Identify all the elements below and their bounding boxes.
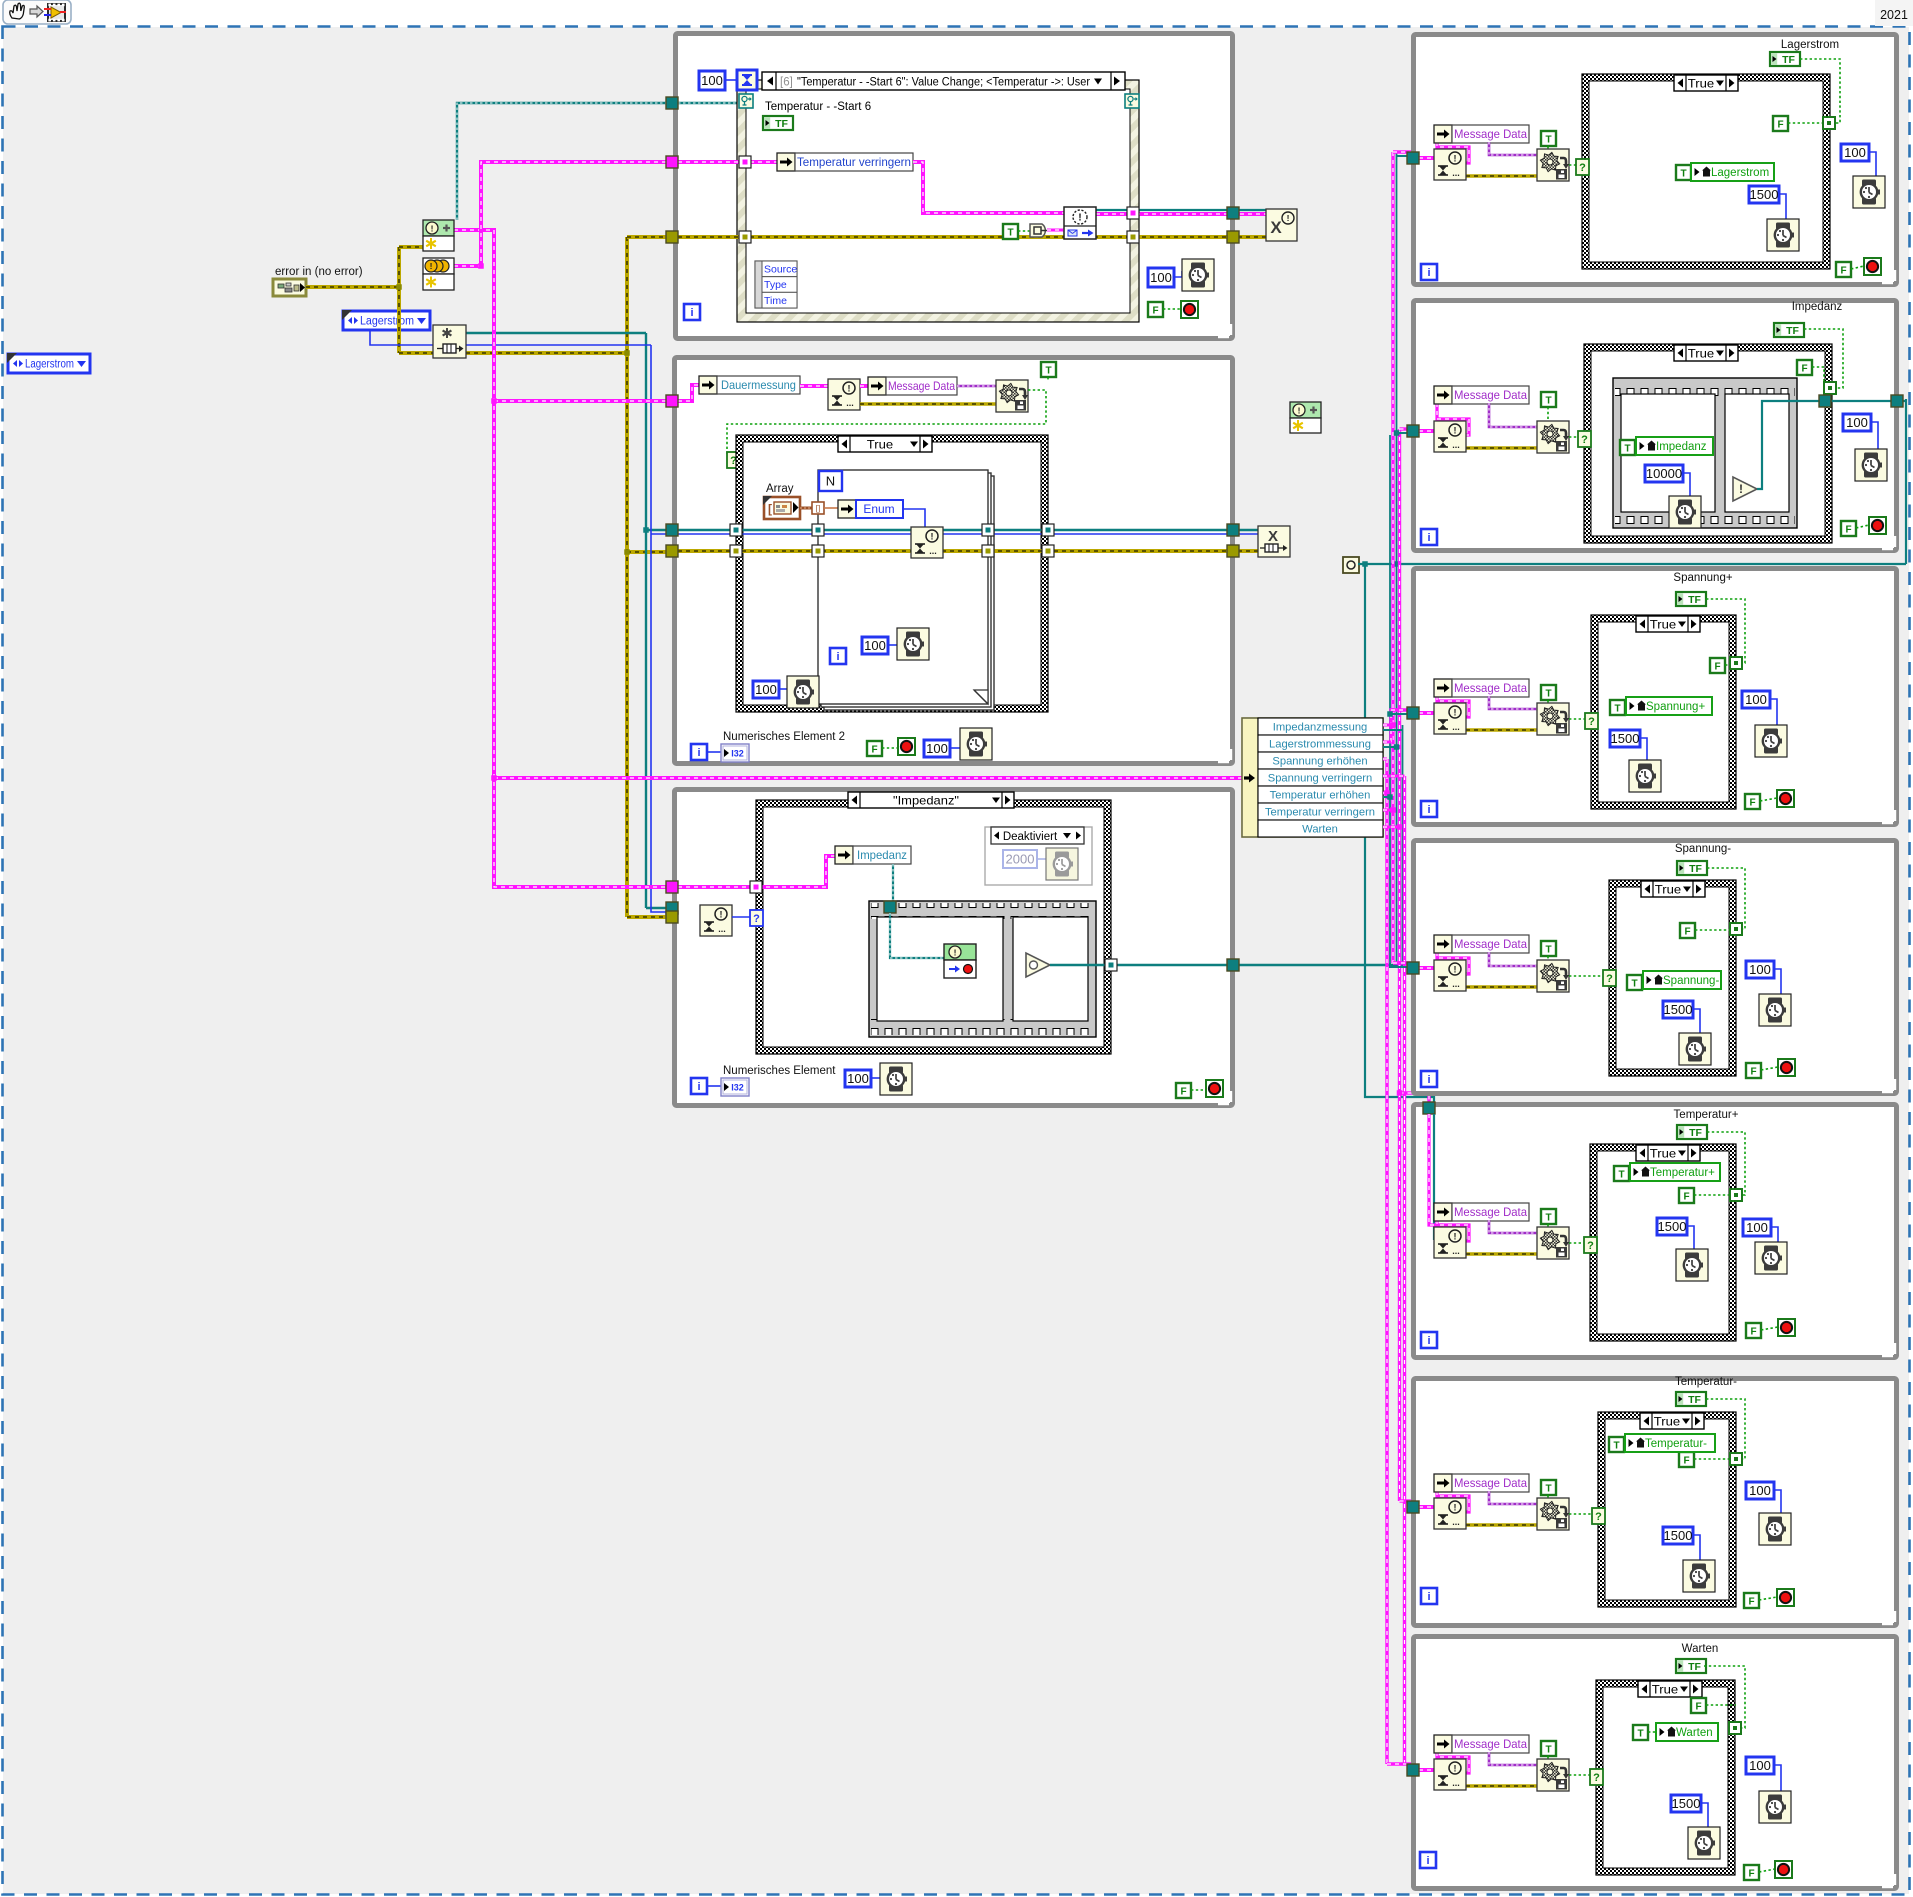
svg-text:T: T: [1614, 703, 1620, 714]
svg-text:10000: 10000: [1646, 466, 1682, 481]
svg-text:?: ?: [1581, 434, 1588, 446]
svg-text:!: !: [931, 531, 934, 541]
svg-text:Message Data: Message Data: [1454, 1737, 1527, 1751]
svg-text:1500: 1500: [1658, 1219, 1687, 1234]
svg-text:Temperatur verringern: Temperatur verringern: [797, 155, 911, 169]
svg-text:Temperatur-: Temperatur-: [1645, 1438, 1707, 1450]
svg-text:1500: 1500: [1664, 1002, 1693, 1017]
svg-text:True: True: [1652, 1682, 1679, 1696]
svg-text:F: F: [1695, 1701, 1701, 1712]
svg-text:Dauermessung: Dauermessung: [721, 378, 796, 392]
svg-text:Spannung erhöhen: Spannung erhöhen: [1272, 756, 1367, 768]
svg-text:Warten: Warten: [1302, 824, 1338, 836]
svg-text:TF: TF: [1688, 1394, 1701, 1406]
svg-text:Temperatur-: Temperatur-: [1675, 1376, 1737, 1388]
svg-text:100: 100: [1749, 1758, 1771, 1773]
svg-text:i: i: [1427, 1074, 1430, 1086]
svg-text:100: 100: [847, 1071, 869, 1086]
svg-text:T: T: [1545, 1483, 1551, 1494]
svg-text:"Impedanz": "Impedanz": [893, 793, 959, 807]
svg-text:[: [: [768, 502, 772, 516]
svg-text:F: F: [1714, 661, 1720, 672]
svg-text:F: F: [1750, 1326, 1756, 1337]
svg-text:F: F: [1845, 524, 1851, 535]
svg-text:!: !: [1454, 707, 1457, 717]
svg-text:T: T: [1545, 944, 1551, 955]
svg-text:Lagerstrom: Lagerstrom: [1781, 39, 1839, 51]
svg-text:100: 100: [755, 682, 777, 697]
svg-text:F: F: [1152, 305, 1158, 316]
svg-text:?: ?: [1588, 716, 1595, 728]
svg-text:Deaktiviert: Deaktiviert: [1003, 831, 1058, 843]
svg-text:TF: TF: [1782, 54, 1795, 66]
svg-text:Warten: Warten: [1676, 1727, 1713, 1739]
svg-text:Impedanz: Impedanz: [1792, 301, 1843, 313]
svg-text:F: F: [1840, 265, 1846, 276]
svg-text:Spannung-: Spannung-: [1663, 975, 1719, 987]
svg-text:2000: 2000: [1006, 852, 1035, 867]
svg-text:I32: I32: [731, 749, 744, 759]
svg-text:100: 100: [1745, 692, 1767, 707]
svg-text:Spannung verringern: Spannung verringern: [1268, 773, 1373, 785]
svg-text:Temperatur erhöhen: Temperatur erhöhen: [1270, 790, 1371, 802]
svg-text:TF: TF: [1688, 1661, 1701, 1673]
svg-text:...: ...: [846, 398, 854, 408]
svg-text:i: i: [690, 307, 693, 319]
svg-text:Numerisches Element: Numerisches Element: [723, 1065, 836, 1077]
svg-text:2021: 2021: [1880, 8, 1908, 22]
svg-text:Lagerstrom: Lagerstrom: [360, 316, 414, 328]
svg-text:True: True: [1650, 617, 1677, 631]
svg-text:Message Data: Message Data: [1454, 388, 1527, 402]
svg-text:1500: 1500: [1611, 731, 1640, 746]
svg-text:...: ...: [1452, 722, 1460, 732]
svg-text:[6]: [6]: [780, 77, 793, 89]
svg-text:100: 100: [864, 638, 886, 653]
svg-text:100: 100: [926, 741, 948, 756]
svg-text:?: ?: [1579, 162, 1586, 174]
svg-text:True: True: [1688, 346, 1715, 360]
svg-text:T: T: [1631, 978, 1637, 989]
svg-text:!: !: [720, 909, 723, 919]
svg-text:100: 100: [1150, 270, 1172, 285]
svg-text:"Temperatur - -Start 6": Value: "Temperatur - -Start 6": Value Change; <…: [797, 77, 1090, 89]
svg-text:i: i: [1426, 1855, 1429, 1867]
svg-text:TF: TF: [1786, 325, 1799, 337]
svg-text:!: !: [1454, 964, 1457, 974]
svg-text:[]: []: [816, 504, 820, 513]
svg-text:F: F: [1683, 1191, 1689, 1202]
svg-text:Temperatur - -Start 6: Temperatur - -Start 6: [765, 101, 871, 113]
svg-text:Spannung+: Spannung+: [1646, 701, 1705, 713]
svg-text:1500: 1500: [1672, 1796, 1701, 1811]
svg-text:...: ...: [1452, 979, 1460, 989]
svg-text:Time: Time: [764, 295, 787, 307]
svg-text:TF: TF: [1689, 1127, 1702, 1139]
svg-text:F: F: [1683, 1455, 1689, 1466]
svg-text:TF: TF: [1688, 594, 1701, 606]
svg-text:...: ...: [1452, 1246, 1460, 1256]
svg-text:X: X: [1270, 218, 1282, 237]
svg-text:i: i: [1427, 804, 1430, 816]
svg-text:Numerisches Element 2: Numerisches Element 2: [723, 731, 845, 743]
svg-text:1500: 1500: [1750, 187, 1779, 202]
svg-text:True: True: [867, 437, 894, 451]
svg-text:TF: TF: [775, 118, 788, 130]
svg-text:i: i: [1427, 532, 1430, 544]
svg-text:?: ?: [1595, 1511, 1602, 1523]
svg-text:!: !: [1287, 213, 1290, 223]
svg-text:T: T: [1007, 227, 1013, 238]
svg-text:...: ...: [1452, 168, 1460, 178]
svg-text:F: F: [1750, 1066, 1756, 1077]
svg-text:N: N: [826, 474, 835, 489]
svg-text:T: T: [1624, 443, 1630, 454]
svg-text:100: 100: [701, 73, 723, 88]
svg-text:Temperatur verringern: Temperatur verringern: [1265, 807, 1375, 819]
svg-text:Message Data: Message Data: [1454, 937, 1527, 951]
svg-text:Temperatur+: Temperatur+: [1674, 1109, 1739, 1121]
svg-text:100: 100: [1746, 1220, 1768, 1235]
svg-text:...: ...: [929, 546, 937, 556]
svg-text:Source: Source: [764, 264, 797, 276]
svg-text:Impedanz: Impedanz: [1656, 441, 1707, 453]
svg-text:Type: Type: [764, 279, 787, 291]
svg-text:True: True: [1655, 882, 1682, 896]
svg-text:?: ?: [753, 913, 760, 925]
svg-text:T: T: [1637, 1728, 1643, 1739]
svg-text:Message Data: Message Data: [1454, 1205, 1527, 1219]
svg-text:Impedanz: Impedanz: [857, 848, 907, 862]
svg-text:Message Data: Message Data: [1454, 127, 1527, 141]
svg-text:T: T: [1545, 134, 1551, 145]
svg-text:i: i: [836, 651, 839, 663]
svg-text:i: i: [1427, 1591, 1430, 1603]
svg-text:?: ?: [1593, 1772, 1600, 1784]
svg-text:error in (no error): error in (no error): [275, 266, 363, 278]
svg-text:!: !: [1454, 425, 1457, 435]
svg-text:T: T: [1545, 1212, 1551, 1223]
svg-text:!: !: [1078, 212, 1082, 224]
svg-text:T: T: [1680, 168, 1686, 179]
svg-text:Warten: Warten: [1682, 1643, 1719, 1655]
svg-text:!: !: [848, 383, 851, 393]
svg-text:T: T: [1545, 395, 1551, 406]
svg-text:True: True: [1654, 1414, 1681, 1428]
svg-text:T: T: [1545, 1744, 1551, 1755]
svg-text:TF: TF: [1689, 863, 1702, 875]
svg-text:i: i: [697, 747, 700, 759]
svg-text:!: !: [1298, 405, 1301, 415]
svg-text:i: i: [697, 1081, 700, 1093]
svg-text:F: F: [871, 744, 877, 755]
svg-text:!: !: [954, 947, 957, 957]
svg-text:F: F: [1777, 119, 1783, 130]
svg-text:Message Data: Message Data: [888, 379, 955, 393]
svg-text:100: 100: [1846, 415, 1868, 430]
svg-text:Message Data: Message Data: [1454, 1476, 1527, 1490]
svg-text:i: i: [1427, 1335, 1430, 1347]
svg-text:1500: 1500: [1664, 1528, 1693, 1543]
svg-text:Message Data: Message Data: [1454, 681, 1527, 695]
svg-text:...: ...: [1452, 1778, 1460, 1788]
svg-text:True: True: [1650, 1146, 1677, 1160]
svg-text:!: !: [431, 223, 434, 233]
svg-text:I32: I32: [731, 1083, 744, 1093]
svg-text:Lagerstrommessung: Lagerstrommessung: [1269, 739, 1371, 751]
svg-text:100: 100: [1749, 1483, 1771, 1498]
svg-text:T: T: [1618, 1169, 1624, 1180]
svg-text:F: F: [1180, 1086, 1186, 1097]
svg-text:X: X: [1268, 528, 1278, 545]
svg-text:!: !: [430, 261, 433, 271]
svg-text:T: T: [1045, 365, 1051, 376]
svg-text:100: 100: [1749, 962, 1771, 977]
svg-text:Lagerstrom: Lagerstrom: [1711, 167, 1769, 179]
svg-text:F: F: [1749, 797, 1755, 808]
svg-text:True: True: [1688, 76, 1715, 90]
svg-text:!: !: [1454, 153, 1457, 163]
svg-text:Impedanzmessung: Impedanzmessung: [1273, 722, 1368, 734]
svg-text:100: 100: [1844, 145, 1866, 160]
svg-text:?: ?: [1606, 973, 1613, 985]
svg-text:F: F: [1748, 1596, 1754, 1607]
svg-text:!: !: [1454, 1502, 1457, 1512]
svg-text:Array: Array: [766, 483, 794, 495]
svg-text:F: F: [1748, 1868, 1754, 1879]
svg-text:!: !: [1454, 1763, 1457, 1773]
svg-text:F: F: [1801, 363, 1807, 374]
svg-text:Spannung-: Spannung-: [1675, 843, 1731, 855]
svg-text:?: ?: [1587, 1240, 1594, 1252]
svg-text:T: T: [1613, 1440, 1619, 1451]
svg-text:...: ...: [1452, 1517, 1460, 1527]
svg-text:...: ...: [1452, 440, 1460, 450]
svg-text:...: ...: [718, 924, 726, 934]
svg-text:Spannung+: Spannung+: [1673, 572, 1732, 584]
svg-text:!: !: [1739, 482, 1743, 496]
svg-text:i: i: [1427, 267, 1430, 279]
svg-text:T: T: [1545, 688, 1551, 699]
svg-text:Temperatur+: Temperatur+: [1650, 1167, 1715, 1179]
svg-text:Lagerstrom: Lagerstrom: [25, 359, 74, 371]
svg-text:F: F: [1684, 926, 1690, 937]
svg-text:Enum: Enum: [863, 502, 894, 516]
svg-text:!: !: [1454, 1231, 1457, 1241]
